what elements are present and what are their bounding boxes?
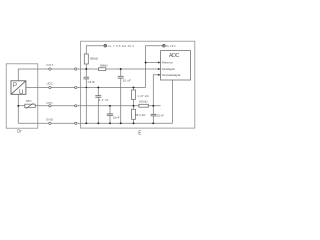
ECU box E — [81, 41, 195, 128]
node GND/C3 — [109, 122, 111, 124]
svg-text:1,47 kΩ: 1,47 kΩ — [137, 94, 149, 98]
junction dots — [17, 62, 154, 125]
arrow pressure signal — [158, 68, 161, 70]
wire OUT sensor to ECU — [38, 68, 161, 70]
capacitor C5 22nF from NTC node to GND — [152, 106, 154, 115]
wire reference from 5V — [146, 62, 161, 64]
svg-text:10 nF: 10 nF — [123, 79, 131, 83]
svg-text:OUT: OUT — [46, 63, 53, 67]
P/U converter block — [11, 81, 26, 95]
resistor R1 590k pullup — [84, 54, 88, 64]
svg-text:3,3 nF: 3,3 nF — [99, 98, 109, 102]
node UCC/C2 — [97, 86, 99, 88]
svg-text:Temperatursignal: Temperatursignal — [162, 73, 181, 77]
node reference tap — [145, 62, 147, 64]
svg-text:Dr: Dr — [17, 129, 22, 134]
svg-text:UCC: UCC — [47, 81, 54, 85]
P/U diagonal — [11, 81, 26, 95]
node GND/C1 — [85, 122, 87, 124]
capacitor C2 from UCC to GND — [97, 87, 99, 95]
wire UCC from P/U right — [26, 86, 146, 88]
svg-text:NTC: NTC — [46, 101, 53, 105]
ADC input arrows — [158, 61, 161, 76]
node UCC/C1 — [86, 87, 88, 89]
svg-text:1,8 nF: 1,8 nF — [87, 80, 95, 84]
terminal UCC right — [75, 86, 77, 88]
supply rail U+ 0,5-16V — [86, 46, 104, 54]
terminal NTC right — [75, 105, 77, 107]
node GND/C5 — [152, 122, 154, 124]
node T junction below P/U — [17, 94, 19, 123]
connector terminals — [49, 68, 77, 125]
resistor R3 1,47k from UCC down — [133, 87, 135, 90]
svg-text:590 kΩ: 590 kΩ — [90, 56, 99, 60]
node GND/R5 — [133, 122, 135, 124]
svg-text:GND: GND — [46, 118, 54, 122]
svg-text:19,6 kΩ: 19,6 kΩ — [139, 99, 149, 103]
wire ADC ground — [172, 80, 174, 123]
arrow temperature signal — [158, 74, 161, 76]
svg-text:Referenz: Referenz — [162, 61, 173, 65]
node OUT/C4 — [120, 68, 122, 70]
wire GND — [18, 122, 172, 124]
svg-text:U+ = 0,5 bis 16 V: U+ = 0,5 bis 16 V — [108, 44, 135, 48]
node sensor NTC junction — [17, 105, 19, 107]
svg-text:29,4 kΩ: 29,4 kΩ — [100, 63, 108, 67]
wire OUT vertical from P/U top — [18, 69, 38, 81]
node UCC/R3 — [133, 86, 135, 88]
ADC U1 — [161, 51, 191, 80]
node OUT/R1 — [85, 68, 87, 70]
svg-text:U+ = 5 V: U+ = 5 V — [166, 44, 176, 48]
plus terminal supply 1 — [104, 44, 107, 47]
node GND/C2 — [97, 122, 99, 124]
node GND/C4 — [120, 122, 122, 124]
resistor R5 38,3k from NTC to GND — [133, 106, 135, 110]
arrow reference — [158, 61, 161, 63]
terminal NTC left — [49, 105, 51, 107]
terminal OUT left — [49, 68, 51, 70]
svg-text:ADC: ADC — [169, 53, 179, 59]
wire temperature signal riser — [153, 75, 160, 106]
svg-text:1,6 nF: 1,6 nF — [113, 116, 120, 120]
svg-text:Drucksignal: Drucksignal — [162, 67, 175, 71]
svg-text:22 nF: 22 nF — [157, 114, 164, 118]
plus terminal supply 2 — [163, 44, 166, 47]
terminal GND left — [49, 122, 51, 124]
node NTC/R3/R5 — [133, 105, 135, 107]
capacitor C4 from OUT to GND — [120, 69, 122, 76]
capacitor C1 1,8nF vertical link OUT-UCC-GND — [85, 69, 87, 77]
terminal GND right — [75, 122, 77, 124]
svg-text:38,3 kΩ: 38,3 kΩ — [135, 113, 146, 117]
svg-text:U: U — [19, 89, 23, 96]
labels — [26, 63, 54, 122]
capacitor C3 from NTC to GND — [109, 106, 111, 114]
svg-text:P: P — [13, 82, 17, 89]
resistor R4 19,6k series in NTC line — [139, 104, 148, 107]
wire NTC — [18, 105, 160, 107]
terminal OUT right — [75, 68, 77, 70]
supply rail U+ 5V — [146, 46, 163, 88]
NTC thermistor in sensor — [25, 104, 35, 108]
sensor box Dr — [6, 64, 38, 128]
node NTC/C3 — [109, 105, 111, 107]
terminal UCC left — [49, 86, 51, 88]
node NTC/C5 — [152, 105, 154, 107]
svg-text:NTC: NTC — [26, 99, 33, 103]
resistor R2 series in OUT line — [99, 68, 106, 71]
